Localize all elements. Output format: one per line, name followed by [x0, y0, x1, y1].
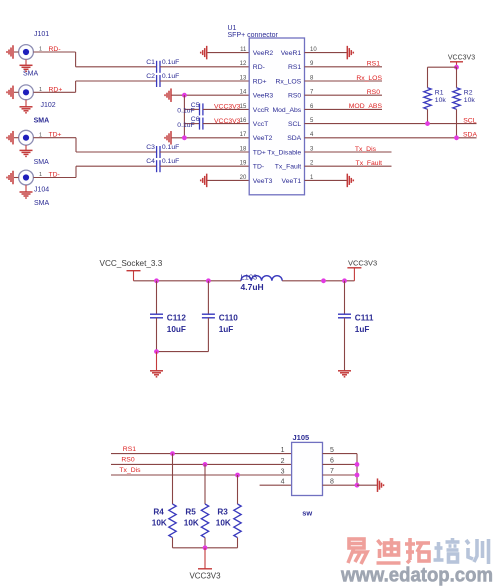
- svg-text:2: 2: [281, 458, 285, 465]
- svg-text:C3: C3: [146, 144, 155, 151]
- svg-text:SDA: SDA: [287, 135, 301, 142]
- capacitor C5: [200, 103, 203, 115]
- U1 right pin numbers 10-1: [310, 47, 317, 181]
- svg-text:VeeT1: VeeT1: [282, 178, 302, 185]
- svg-text:www.edatop.com: www.edatop.com: [340, 565, 493, 587]
- wire J105 pin 4 stub: [260, 484, 292, 486]
- wire C110 top lead: [207, 281, 209, 314]
- capacitor C6: [200, 118, 203, 130]
- svg-text:10K: 10K: [216, 518, 231, 527]
- svg-text:C2: C2: [146, 73, 155, 80]
- ground below J101: [20, 65, 33, 71]
- wire U1 pin 11: [207, 52, 249, 54]
- svg-text:6: 6: [330, 458, 334, 465]
- wire TD- vertical step: [75, 166, 77, 177]
- wire TD+ from J103: [33, 137, 76, 139]
- wire VCC to R1: [428, 66, 457, 68]
- svg-text:1uF: 1uF: [219, 325, 234, 334]
- wire C4 to U1 pin 19: [160, 165, 249, 167]
- resistor R5: [201, 504, 208, 538]
- wire R2 top lead: [456, 67, 458, 88]
- svg-text:0.1uF: 0.1uF: [162, 144, 179, 151]
- wire R5 bottom lead: [204, 538, 206, 548]
- wire VCC_Socket stem: [133, 271, 135, 281]
- svg-text:10K: 10K: [152, 518, 167, 527]
- svg-text:18: 18: [240, 146, 247, 152]
- svg-text:SCL: SCL: [288, 121, 301, 128]
- wire Tx_Fault net: [305, 165, 392, 167]
- svg-text:R3: R3: [217, 508, 228, 517]
- wire Rx_LOS net: [305, 80, 383, 82]
- svg-text:R5: R5: [185, 508, 196, 517]
- power VCC3V3 mid bar: [347, 267, 361, 269]
- wire to C6: [184, 123, 199, 125]
- svg-text:RD+: RD+: [253, 78, 267, 85]
- J105 left pin numbers: [281, 447, 285, 486]
- wire Tx_Dis to J105 pin 3: [111, 474, 292, 476]
- svg-text:15: 15: [240, 104, 247, 110]
- svg-text:10K: 10K: [184, 518, 199, 527]
- svg-text:TD-: TD-: [253, 164, 264, 171]
- wire RD- from J101: [33, 51, 75, 53]
- svg-text:C112: C112: [167, 313, 187, 322]
- watermark yiditop chinese characters: [348, 538, 489, 564]
- svg-text:16: 16: [240, 118, 247, 124]
- junction TxDis-R3: [235, 473, 240, 478]
- wire R5 top lead: [204, 464, 206, 504]
- junction R1-SCL: [425, 121, 430, 126]
- wire J105 right bus: [356, 454, 358, 486]
- svg-text:L103: L103: [241, 273, 258, 282]
- junction R2-SDA: [454, 135, 459, 140]
- wire bottom rail C112-C110: [157, 351, 209, 353]
- ground right of J105: [378, 478, 384, 492]
- ground at U1 pin 20: [201, 174, 207, 188]
- junction after L103: [321, 278, 326, 283]
- svg-text:R1: R1: [435, 89, 444, 96]
- svg-text:SMA: SMA: [34, 159, 50, 166]
- wire to VCC3V3 bottom: [204, 548, 206, 569]
- power VCC3V3 bottom bar: [198, 568, 212, 570]
- capacitor C112: [150, 314, 163, 318]
- svg-text:10k: 10k: [435, 97, 447, 104]
- resistor R2: [453, 88, 460, 110]
- svg-text:VCC3V3: VCC3V3: [189, 572, 221, 581]
- wire C3 to U1 pin 18: [160, 151, 249, 153]
- svg-text:0.1uF: 0.1uF: [177, 108, 194, 115]
- wire J103 bottom stem: [25, 145, 27, 150]
- svg-text:RS0: RS0: [288, 93, 301, 100]
- capacitor C2: [157, 75, 160, 87]
- svg-text:11: 11: [240, 47, 247, 53]
- junction pin7 bus: [355, 473, 360, 478]
- wire to C1: [76, 66, 157, 68]
- resistor R4: [169, 504, 176, 538]
- J105 right pin numbers: [330, 447, 334, 486]
- ground below C111: [338, 371, 351, 377]
- svg-text:RS1: RS1: [123, 446, 136, 453]
- ground at U1 pin 1: [347, 174, 353, 188]
- wire R4 top lead: [172, 454, 174, 504]
- wire to C3: [76, 151, 157, 153]
- svg-text:MOD_ABS: MOD_ABS: [349, 103, 383, 110]
- wire RS1 net: [305, 66, 383, 68]
- svg-text:C4: C4: [146, 158, 155, 165]
- capacitor C110: [202, 314, 215, 318]
- junction on pin 14 wire: [182, 93, 187, 98]
- svg-text:VeeR2: VeeR2: [253, 50, 274, 57]
- wire C5 to U1 pin 15: [203, 108, 249, 110]
- svg-text:SMA: SMA: [34, 118, 50, 125]
- svg-text:VCC_Socket_3.3: VCC_Socket_3.3: [100, 259, 163, 268]
- junction RS1-R4: [170, 451, 175, 456]
- svg-text:SDA: SDA: [463, 132, 477, 139]
- wire VCC3V3 stem: [456, 62, 458, 67]
- junction at C112: [154, 278, 159, 283]
- svg-text:19: 19: [240, 161, 247, 167]
- svg-text:0.1uF: 0.1uF: [162, 158, 179, 165]
- svg-text:7: 7: [330, 468, 334, 475]
- junction pin6 bus: [355, 462, 360, 467]
- svg-text:RS0: RS0: [121, 457, 134, 464]
- wire R2 bottom lead: [456, 109, 458, 138]
- wire RS1 to J105 pin 1: [111, 453, 292, 455]
- svg-text:1: 1: [281, 447, 285, 454]
- wire Tx_Dis net: [305, 151, 392, 153]
- junction at C112 bottom: [154, 349, 159, 354]
- wire SCL net: [305, 123, 477, 125]
- ground below C112: [150, 371, 163, 377]
- svg-text:Rx_LOS: Rx_LOS: [276, 78, 302, 85]
- ground at U1 pin 14: [165, 88, 171, 102]
- capacitor C3: [157, 146, 160, 158]
- junction on pin 17 wire: [182, 135, 187, 140]
- wire R3 bottom lead: [237, 538, 239, 548]
- svg-text:SCL: SCL: [463, 117, 476, 124]
- wire J104 left stub: [14, 177, 19, 179]
- svg-text:TD+: TD+: [253, 149, 266, 156]
- svg-text:J102: J102: [41, 102, 56, 109]
- wire R1 top lead: [427, 67, 429, 88]
- wire C110 bottom lead: [207, 318, 209, 352]
- inductor L103: [241, 276, 282, 281]
- svg-text:VeeT2: VeeT2: [253, 135, 273, 142]
- capacitor C111: [338, 314, 351, 318]
- ground left of J101: [7, 45, 13, 59]
- svg-text:C111: C111: [355, 313, 374, 322]
- ground below J102: [20, 107, 33, 113]
- wire J101 left stub: [14, 51, 19, 53]
- resistor R3: [234, 504, 241, 538]
- wire mid rail left: [134, 280, 242, 282]
- wire C6 to U1 pin 16: [203, 123, 249, 125]
- svg-text:VccT: VccT: [253, 121, 268, 128]
- svg-text:10k: 10k: [464, 97, 476, 104]
- wire to C5: [184, 108, 199, 110]
- svg-text:5: 5: [330, 447, 334, 454]
- svg-text:VCC3V3: VCC3V3: [214, 118, 241, 125]
- wire ground stem mid: [156, 352, 158, 371]
- wire SDA net: [305, 137, 477, 139]
- svg-text:J104: J104: [34, 187, 49, 194]
- wire U1 pin 20: [207, 179, 249, 181]
- wire J103 left stub: [14, 137, 19, 139]
- ground left of J102: [7, 86, 13, 100]
- svg-text:SFP+ connector: SFP+ connector: [228, 32, 279, 39]
- connector J104 SMA coax: [19, 170, 34, 185]
- wire RD+ vertical step: [75, 81, 77, 92]
- connector J105 box: [292, 442, 323, 495]
- wire R4 bottom lead: [172, 538, 174, 548]
- wire C111 bottom lead: [344, 318, 346, 371]
- svg-text:Tx_Fault: Tx_Fault: [356, 160, 383, 167]
- svg-text:4.7uH: 4.7uH: [241, 282, 264, 292]
- svg-text:RS1: RS1: [367, 61, 380, 68]
- wire VCC3V3 mid stem: [353, 268, 355, 281]
- svg-text:Tx_Fault: Tx_Fault: [275, 164, 302, 171]
- svg-text:0.1uF: 0.1uF: [162, 73, 179, 80]
- junction RS0-R5: [203, 462, 208, 467]
- svg-text:U1: U1: [228, 25, 237, 32]
- wire C2 to U1 pin 13: [160, 80, 249, 82]
- junction at C111: [342, 278, 347, 283]
- svg-text:Tx_Disable: Tx_Disable: [267, 149, 301, 156]
- wire RS0 to J105 pin 2: [111, 463, 292, 465]
- junction pin8 bus: [355, 483, 360, 488]
- wire U1 pin 1: [305, 179, 347, 181]
- wire U1 pin 14: [172, 94, 250, 96]
- svg-text:RD-: RD-: [253, 64, 265, 71]
- svg-text:VCC3V3: VCC3V3: [348, 259, 377, 268]
- resistor R1: [424, 88, 431, 110]
- svg-text:C1: C1: [146, 59, 155, 66]
- wire mid rail right: [282, 280, 354, 282]
- U1 left pin names: [253, 50, 274, 185]
- ground left of J103: [7, 131, 13, 145]
- ground at U1 pin 17: [165, 131, 171, 145]
- svg-text:4: 4: [281, 479, 285, 486]
- junction bottom rail: [203, 545, 208, 550]
- connector J103 SMA coax: [19, 130, 34, 145]
- svg-text:17: 17: [240, 132, 247, 138]
- svg-text:R2: R2: [464, 89, 473, 96]
- wire to C4: [76, 165, 157, 167]
- capacitor C4: [157, 160, 160, 172]
- wire RS0 net: [305, 94, 383, 96]
- svg-text:J101: J101: [34, 31, 49, 38]
- svg-text:Mod_Abs: Mod_Abs: [272, 107, 301, 114]
- junction at C110: [206, 278, 211, 283]
- wire TD- from J104: [33, 177, 76, 179]
- ground below J104: [20, 192, 33, 198]
- ground left of J104: [7, 171, 13, 185]
- wire C112 bottom lead: [156, 318, 158, 352]
- svg-text:VeeT3: VeeT3: [253, 178, 273, 185]
- wire C111 top lead: [344, 281, 346, 314]
- svg-text:12: 12: [240, 61, 247, 67]
- wire to C2: [76, 80, 157, 82]
- svg-text:VCC3V3: VCC3V3: [448, 55, 475, 62]
- wire MOD_ABS net: [305, 108, 383, 110]
- wire resistor bottom rail: [173, 547, 238, 549]
- svg-text:RS0: RS0: [367, 89, 380, 96]
- svg-text:Tx_Dis: Tx_Dis: [119, 467, 141, 474]
- ground at U1 pin 11: [201, 46, 207, 60]
- svg-text:VeeR1: VeeR1: [281, 50, 302, 57]
- svg-text:1uF: 1uF: [355, 325, 370, 334]
- wire U1 pin 10: [305, 52, 347, 54]
- svg-text:13: 13: [240, 75, 247, 81]
- svg-text:14: 14: [240, 90, 247, 96]
- U1 right pin names: [267, 50, 302, 185]
- svg-text:VCC3V3: VCC3V3: [214, 104, 241, 111]
- svg-text:0.1uF: 0.1uF: [177, 122, 194, 129]
- svg-text:8: 8: [330, 478, 334, 485]
- svg-text:SMA: SMA: [34, 200, 50, 207]
- svg-text:Tx_Dis: Tx_Dis: [355, 146, 377, 153]
- ground below J103: [20, 150, 33, 156]
- svg-text:VeeR3: VeeR3: [253, 93, 274, 100]
- ground at U1 pin 10: [347, 46, 353, 60]
- wire J102 bottom stem: [25, 100, 27, 107]
- connector J101 SMA coax: [19, 45, 34, 60]
- svg-text:C110: C110: [219, 313, 239, 322]
- junction below VCC3V3: [454, 65, 459, 70]
- wire bus to ground: [357, 484, 377, 486]
- op-amp U1 SFP+ connector box: [249, 38, 304, 195]
- wires J105 pins 5-8: [323, 454, 358, 486]
- wire TD+ vertical step: [75, 138, 77, 152]
- svg-text:0.1uF: 0.1uF: [162, 59, 179, 66]
- wire RD+ from J102: [33, 91, 75, 93]
- wire R3 top lead: [237, 475, 239, 504]
- svg-text:20: 20: [240, 175, 247, 181]
- wire C112 top lead: [156, 281, 158, 314]
- svg-text:sw: sw: [302, 508, 312, 517]
- power VCC3V3 top-right bar: [450, 61, 463, 63]
- capacitor C1: [157, 61, 160, 73]
- svg-text:RS1: RS1: [288, 64, 301, 71]
- svg-text:R4: R4: [153, 508, 164, 517]
- wire C1 to U1 pin 12: [160, 66, 249, 68]
- wire RD- vertical step: [75, 52, 77, 67]
- power VCC_Socket_3.3 bar: [127, 270, 141, 272]
- wire R1 bottom lead: [427, 109, 429, 123]
- svg-text:Rx_LOS: Rx_LOS: [356, 75, 382, 82]
- svg-text:3: 3: [281, 469, 285, 476]
- svg-text:10uF: 10uF: [167, 325, 186, 334]
- wire U1 pin 17: [172, 137, 250, 139]
- wire J102 left stub: [14, 91, 19, 93]
- svg-text:J105: J105: [293, 433, 310, 442]
- U1 left pin numbers 11-20: [240, 47, 247, 181]
- wire J104 bottom stem: [25, 185, 27, 192]
- wire vertical C5-C6 bus: [183, 95, 185, 138]
- wire J101 bottom stem: [25, 59, 27, 65]
- svg-text:VccR: VccR: [253, 107, 269, 114]
- connector J102 SMA coax: [19, 85, 34, 100]
